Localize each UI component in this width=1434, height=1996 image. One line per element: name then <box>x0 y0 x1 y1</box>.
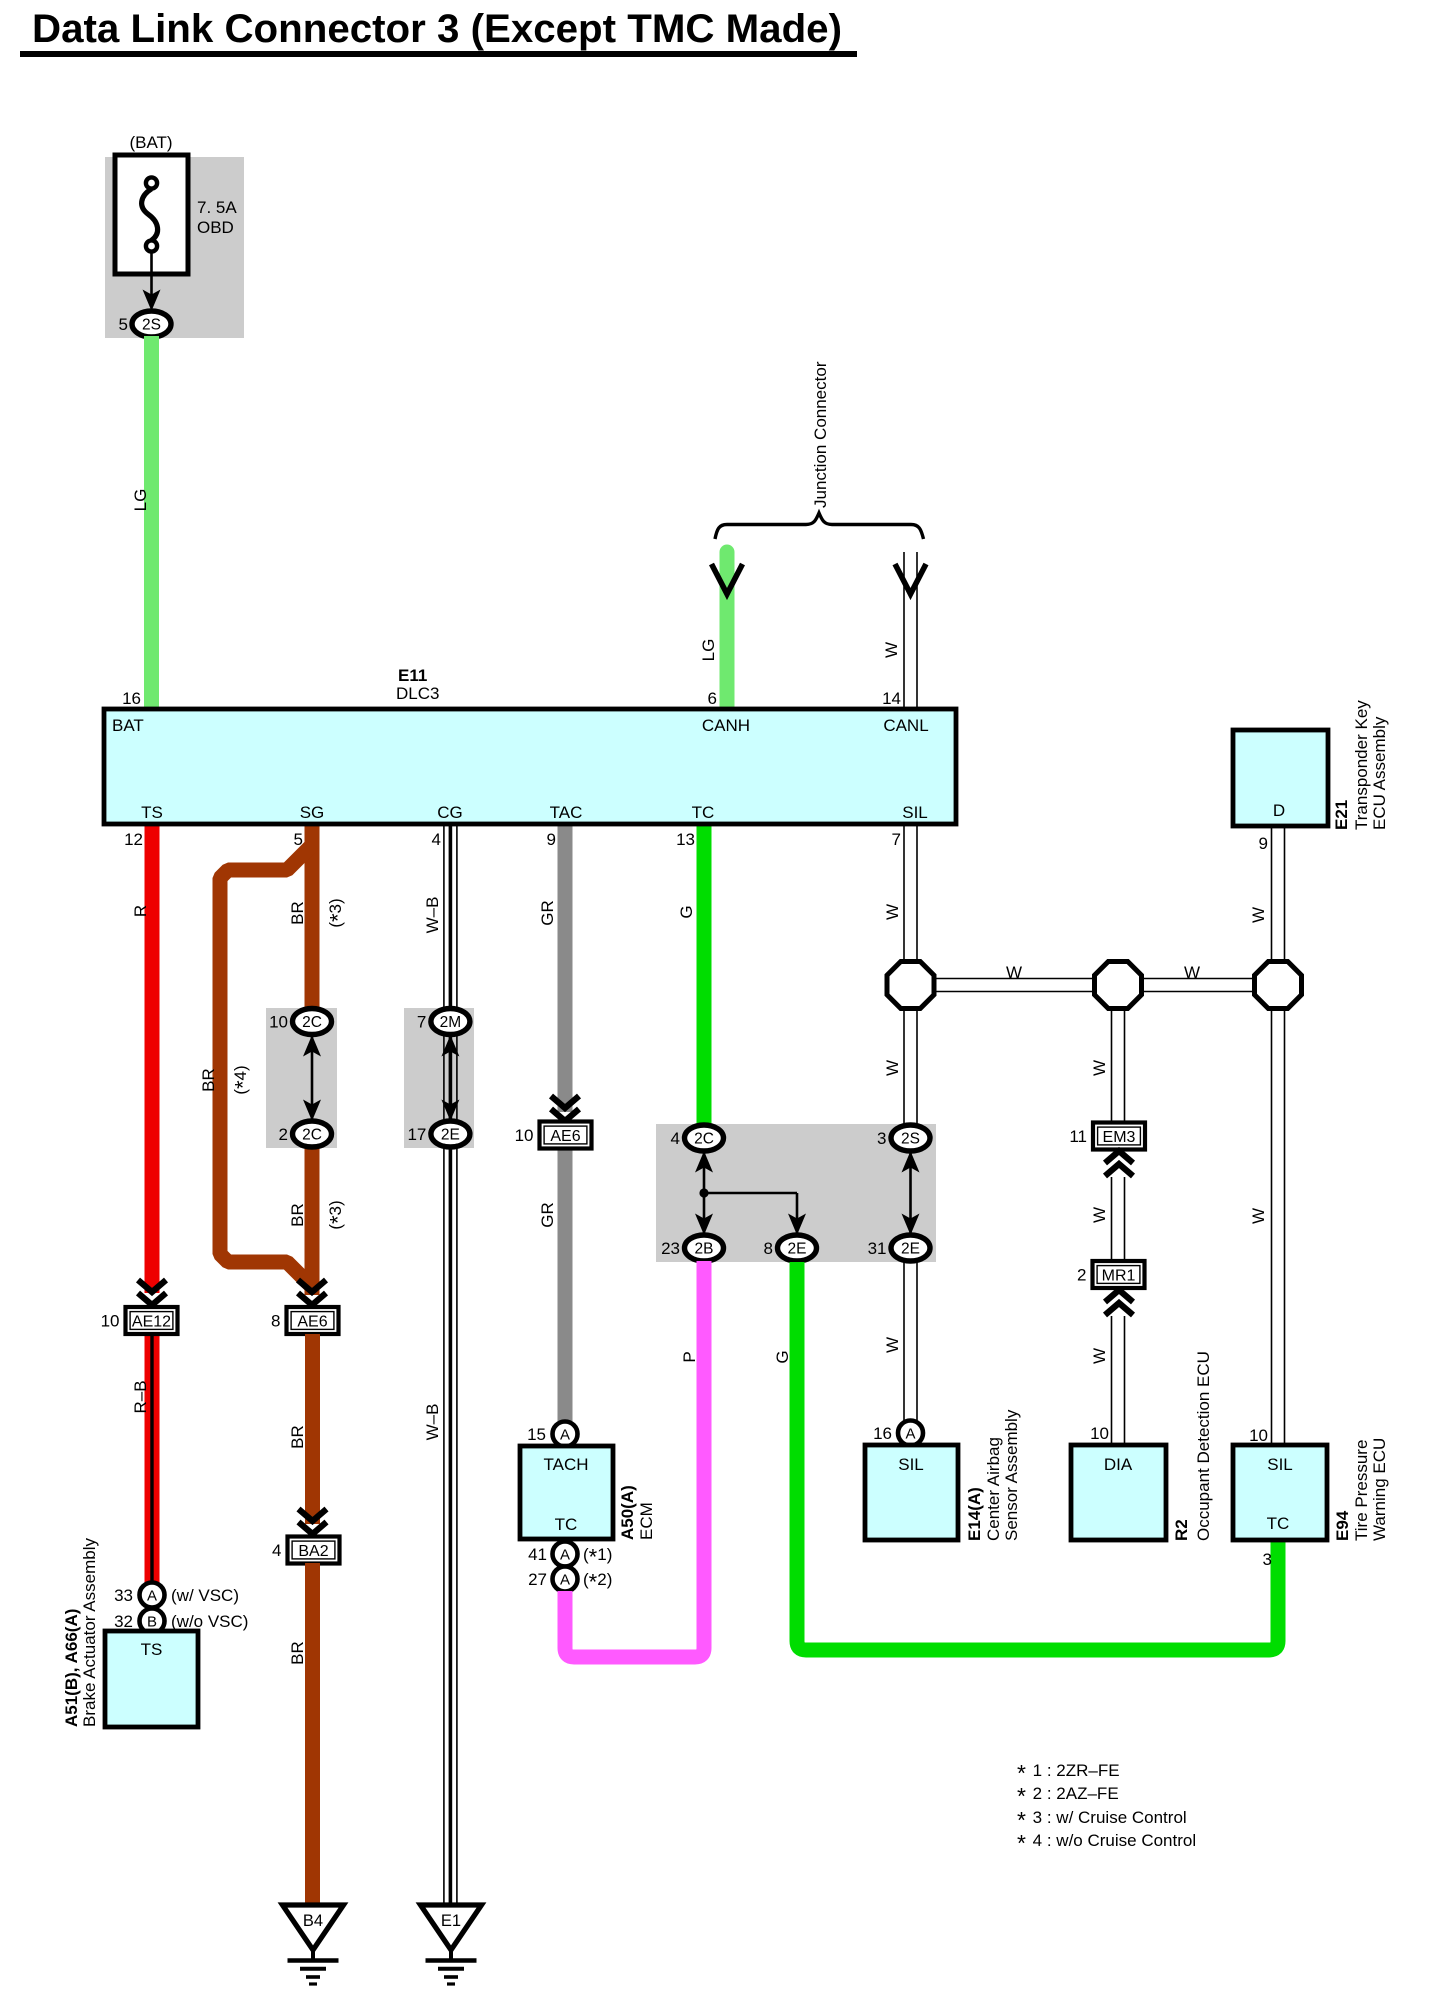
svg-text:Sensor Assembly: Sensor Assembly <box>1002 1409 1021 1541</box>
svg-text:W: W <box>1090 1348 1109 1364</box>
svg-text:41: 41 <box>528 1545 547 1564</box>
svg-text:AE6: AE6 <box>550 1128 580 1145</box>
svg-text:G: G <box>773 1350 792 1363</box>
svg-text:AE12: AE12 <box>132 1313 171 1330</box>
svg-text:2E: 2E <box>441 1127 460 1144</box>
svg-text:W: W <box>883 904 902 920</box>
svg-text:10: 10 <box>1090 1424 1109 1443</box>
svg-text:9: 9 <box>1259 834 1268 853</box>
svg-text:SIL: SIL <box>1267 1455 1293 1474</box>
svg-text:A: A <box>560 1547 570 1564</box>
svg-text:10: 10 <box>269 1013 288 1032</box>
svg-text:ECU Assembly: ECU Assembly <box>1370 716 1389 830</box>
svg-text:Center Airbag: Center Airbag <box>984 1437 1003 1541</box>
svg-text:W: W <box>1249 1208 1268 1224</box>
svg-text:D: D <box>1273 801 1285 820</box>
svg-text:LG: LG <box>131 489 150 512</box>
svg-text:SIL: SIL <box>902 803 928 822</box>
svg-text:7. 5A: 7. 5A <box>197 198 237 217</box>
svg-text:10: 10 <box>515 1126 534 1145</box>
svg-text:B: B <box>147 1614 157 1631</box>
svg-text:TACH: TACH <box>543 1455 588 1474</box>
svg-text:9: 9 <box>547 830 556 849</box>
svg-text:E1: E1 <box>441 1912 461 1930</box>
svg-text:GR: GR <box>538 1202 557 1228</box>
svg-text:3: 3 <box>877 1129 886 1148</box>
svg-text:BAT: BAT <box>112 716 144 735</box>
svg-text:27: 27 <box>528 1570 547 1589</box>
svg-text:5: 5 <box>119 315 128 334</box>
svg-text:2B: 2B <box>695 1241 714 1258</box>
svg-text:2S: 2S <box>901 1131 920 1148</box>
svg-text:TAC: TAC <box>550 803 583 822</box>
svg-text:SIL: SIL <box>898 1455 924 1474</box>
svg-text:A: A <box>560 1572 570 1589</box>
svg-text:R–B: R–B <box>131 1380 150 1413</box>
svg-text:2S: 2S <box>142 317 161 334</box>
svg-text:2E: 2E <box>901 1241 920 1258</box>
svg-text:3: 3 <box>1263 1550 1272 1569</box>
svg-text:W–B: W–B <box>423 1404 442 1441</box>
svg-text:2: 2 <box>1077 1266 1086 1285</box>
svg-text:W: W <box>1249 907 1268 923</box>
svg-text:W: W <box>883 1337 902 1353</box>
svg-text:TC: TC <box>692 803 715 822</box>
svg-text:CG: CG <box>437 803 463 822</box>
svg-text:E21: E21 <box>1332 800 1351 830</box>
svg-text:TC: TC <box>555 1515 578 1534</box>
svg-text:Occupant Detection ECU: Occupant Detection ECU <box>1194 1351 1213 1541</box>
svg-text:6: 6 <box>708 689 717 708</box>
svg-text:W: W <box>1006 963 1022 982</box>
svg-text:2C: 2C <box>694 1131 714 1148</box>
svg-text:EM3: EM3 <box>1103 1129 1136 1146</box>
svg-text:R: R <box>131 905 150 917</box>
svg-text:W: W <box>883 1060 902 1076</box>
svg-text:TS: TS <box>141 803 163 822</box>
svg-text:31: 31 <box>868 1239 887 1258</box>
svg-text:12: 12 <box>124 830 143 849</box>
svg-text:DIA: DIA <box>1104 1455 1133 1474</box>
svg-text:TS: TS <box>141 1640 163 1659</box>
svg-text:DLC3: DLC3 <box>396 684 439 703</box>
svg-text:B4: B4 <box>303 1912 323 1930</box>
svg-text:Brake Actuator Assembly: Brake Actuator Assembly <box>80 1538 99 1727</box>
svg-text:(w/o VSC): (w/o VSC) <box>171 1612 248 1631</box>
svg-text:W: W <box>1090 1207 1109 1223</box>
svg-text:MR1: MR1 <box>1102 1267 1136 1284</box>
svg-text:BR: BR <box>288 901 307 925</box>
svg-text:Transponder Key: Transponder Key <box>1352 700 1371 830</box>
svg-text:15: 15 <box>527 1425 546 1444</box>
svg-text:8: 8 <box>271 1312 280 1331</box>
svg-text:2M: 2M <box>440 1014 462 1031</box>
svg-text:P: P <box>680 1351 699 1362</box>
svg-text:W: W <box>882 642 901 658</box>
svg-text:CANH: CANH <box>702 716 750 735</box>
svg-text:A50(A): A50(A) <box>618 1485 637 1540</box>
svg-text:32: 32 <box>114 1612 133 1631</box>
svg-text:4: 4 <box>432 830 441 849</box>
svg-text:R2: R2 <box>1172 1519 1191 1541</box>
svg-text:Warning ECU: Warning ECU <box>1370 1438 1389 1541</box>
svg-text:OBD: OBD <box>197 218 234 237</box>
svg-text:Tire Pressure: Tire Pressure <box>1352 1440 1371 1541</box>
svg-text:2E: 2E <box>788 1241 807 1258</box>
svg-text:(BAT): (BAT) <box>129 133 172 152</box>
svg-text:2C: 2C <box>302 1127 322 1144</box>
svg-text:A: A <box>905 1426 915 1443</box>
svg-text:10: 10 <box>101 1312 120 1331</box>
svg-text:2C: 2C <box>302 1014 322 1031</box>
svg-text:AE6: AE6 <box>297 1313 327 1330</box>
svg-text:GR: GR <box>538 900 557 926</box>
svg-text:E14(A): E14(A) <box>965 1487 984 1541</box>
svg-text:BR: BR <box>288 1203 307 1227</box>
svg-text:16: 16 <box>873 1424 892 1443</box>
svg-text:7: 7 <box>892 830 901 849</box>
svg-text:G: G <box>677 905 696 918</box>
svg-text:A: A <box>147 1588 157 1605</box>
svg-text:5: 5 <box>294 830 303 849</box>
svg-text:Junction Connector: Junction Connector <box>811 361 830 508</box>
svg-text:8: 8 <box>764 1239 773 1258</box>
svg-text:E94: E94 <box>1333 1510 1352 1541</box>
svg-text:BR: BR <box>288 1425 307 1449</box>
svg-text:11: 11 <box>1069 1127 1087 1146</box>
svg-text:4: 4 <box>671 1129 680 1148</box>
svg-text:17: 17 <box>407 1125 426 1144</box>
svg-text:4: 4 <box>272 1541 281 1560</box>
svg-text:ECM: ECM <box>637 1502 656 1540</box>
svg-text:CANL: CANL <box>883 716 928 735</box>
svg-text:33: 33 <box>114 1586 133 1605</box>
svg-text:BA2: BA2 <box>298 1543 328 1560</box>
svg-text:Data Link Connector 3 (Except: Data Link Connector 3 (Except TMC Made) <box>32 7 842 51</box>
svg-text:14: 14 <box>882 689 901 708</box>
svg-text:E11: E11 <box>398 666 427 685</box>
svg-text:7: 7 <box>417 1013 426 1032</box>
svg-text:W–B: W–B <box>423 897 442 934</box>
svg-text:TC: TC <box>1267 1514 1290 1533</box>
svg-text:W: W <box>1184 963 1200 982</box>
svg-text:LG: LG <box>699 639 718 662</box>
svg-text:BR: BR <box>288 1641 307 1665</box>
svg-text:13: 13 <box>676 830 695 849</box>
svg-text:10: 10 <box>1249 1426 1268 1445</box>
svg-text:2: 2 <box>279 1125 288 1144</box>
svg-text:(w/ VSC): (w/ VSC) <box>171 1586 239 1605</box>
svg-text:W: W <box>1090 1060 1109 1076</box>
svg-text:A: A <box>560 1427 570 1444</box>
svg-text:BR: BR <box>199 1068 218 1092</box>
svg-text:SG: SG <box>300 803 325 822</box>
svg-text:16: 16 <box>122 689 141 708</box>
svg-text:A51(B), A66(A): A51(B), A66(A) <box>62 1609 81 1727</box>
svg-text:23: 23 <box>661 1239 680 1258</box>
